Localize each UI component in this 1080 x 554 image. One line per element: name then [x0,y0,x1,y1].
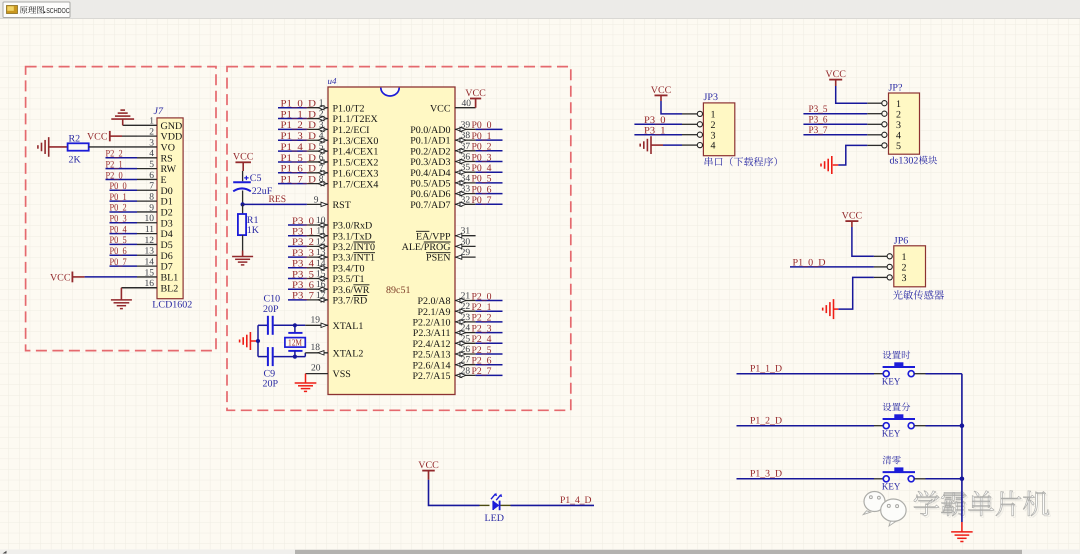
U4 pin 18 stub with arrow [305,351,328,355]
svg-text:J7: J7 [154,106,164,117]
wire and net label P0_6 (right) [472,184,503,195]
power port VCC (JP6) [842,210,863,227]
svg-text:P1_3_D: P1_3_D [750,469,782,480]
U4 pin 15 stub with arrow [307,276,328,280]
U4 pin 29 stub with arrow [455,255,476,259]
U4 pin 40 stub [455,107,476,109]
svg-text:P1_4_D: P1_4_D [560,495,592,506]
wire crystal left rail [257,325,259,356]
LED D1 [480,493,511,510]
svg-text:P0.4/AD4: P0.4/AD4 [410,168,450,179]
wire RES node to R1 [242,204,244,214]
svg-text:P1_0_D: P1_0_D [793,258,826,269]
svg-text:P2.7/A15: P2.7/A15 [412,371,450,382]
svg-text:VCC: VCC [651,85,672,96]
svg-text:D7: D7 [161,262,173,273]
svg-text:16: 16 [316,280,326,290]
svg-text:P2.4/A12: P2.4/A12 [412,339,450,350]
svg-text:5: 5 [896,141,901,152]
U4 pin 2 stub with arrow [307,116,328,120]
svg-text:P0_7: P0_7 [472,195,492,206]
svg-text:P0_3: P0_3 [110,214,127,225]
node crystal-ground junction [256,339,260,343]
wire VCC to C5 [242,162,245,181]
svg-text:3: 3 [902,273,907,284]
svg-text:13: 13 [316,248,326,258]
ground (J7 pin 1) [111,110,134,125]
power port VCC (J7 BL1) [50,272,85,284]
svg-text:P2.0/A8: P2.0/A8 [417,296,450,307]
U4 pin 19 stub with arrow [305,323,328,327]
svg-text:P0_0: P0_0 [110,181,127,192]
svg-text:29: 29 [461,248,471,258]
wire and net label P2_2 (J7 pin 4) [106,149,138,160]
svg-text:P0.6/AD6: P0.6/AD6 [410,189,450,200]
U4 pin 23 stub with arrow [455,320,476,324]
svg-text:1: 1 [319,99,324,109]
wire and net label P0_1 (right) [472,131,503,142]
ground (JP6 pin 3) [823,299,839,319]
U4 pin 8 stub with arrow [307,181,328,185]
svg-text:P3.5/T1: P3.5/T1 [333,274,365,285]
wire and net label P2_0 (right) [472,291,503,302]
power port VCC (U4 pin 40) [465,88,486,108]
U4 pin 7 stub with arrow [307,171,328,175]
wire and net label P3_1 [288,227,314,238]
svg-text:VCC: VCC [418,460,439,471]
svg-text:JP?: JP? [889,83,903,94]
U4 pin 11 stub with arrow [307,234,328,238]
svg-text:VO: VO [161,143,175,154]
svg-text:P0.3/AD3: P0.3/AD3 [410,157,450,168]
wire and net label P3_7 (JP? pin 4) [803,125,867,136]
svg-text:P2_7: P2_7 [472,366,492,377]
wire and net label P1_1_D [737,363,875,374]
U4 pin 24 stub with arrow [455,330,476,334]
svg-text:9: 9 [314,195,319,205]
svg-text:2: 2 [319,110,324,120]
JP6 pin stubs and circles [874,254,892,280]
J7 pin names [161,121,183,294]
svg-text:P0.7/AD7: P0.7/AD7 [410,200,450,211]
svg-text:VSS: VSS [333,369,351,380]
U4 pin 20 stub [306,373,329,375]
svg-text:25: 25 [461,334,471,344]
svg-text:30: 30 [461,237,471,247]
svg-text:P2_6: P2_6 [472,356,492,367]
U4 pin 25 stub with arrow [455,341,476,345]
svg-text:P3_6: P3_6 [809,115,828,126]
wire and net label P0_4 (right) [472,163,503,174]
svg-text:P1.3/CEX0: P1.3/CEX0 [333,136,379,147]
connector JP6 body [894,246,926,287]
wire and net label RES to U4 RST [243,194,307,205]
svg-text:P2.6/A14: P2.6/A14 [412,360,450,371]
wire R1 to ground [242,235,244,256]
svg-text:P3.1/TxD: P3.1/TxD [333,231,372,242]
svg-text:89c51: 89c51 [386,285,410,296]
svg-text:LED: LED [485,513,504,524]
wire and net label P2_5 (right) [472,345,503,356]
svg-text:P1_5_D: P1_5_D [281,153,317,164]
svg-text:JP3: JP3 [704,92,718,103]
wire VCC to J7 pin 2 [122,135,137,137]
svg-text:P0.0/AD0: P0.0/AD0 [410,125,450,136]
JP? pin numbers [896,99,901,152]
svg-text:1K: 1K [247,225,260,236]
svg-text:4: 4 [319,131,324,141]
U4 pin 14 stub with arrow [307,266,328,270]
node XTAL1 junction [293,323,297,327]
svg-text:VDD: VDD [161,132,183,143]
svg-text:2: 2 [902,263,907,274]
U4 pin 4 stub with arrow [307,138,328,142]
U4 pin 30 stub with arrow [455,244,476,248]
U4 pin 31 stub with arrow [455,234,476,238]
wire C9 to XTAL2 [274,353,306,357]
U4 right pin names [402,103,451,382]
wire and net label P1_0_D (JP6 pin 2) [790,258,874,269]
U4 pin 22 stub with arrow [455,309,476,313]
push button KEY (设置分) [874,414,926,428]
svg-text:ALE/PROG: ALE/PROG [402,242,451,253]
wire and net label P3_3 [288,248,314,259]
svg-text:P1_3_D: P1_3_D [281,131,317,142]
wire and net label P0_5 (right) [472,174,503,185]
svg-text:26: 26 [461,345,471,355]
U4 pin 27 stub with arrow [455,363,476,367]
JP3 pin numbers [711,110,716,152]
wire and net label P1_6_D [278,164,316,175]
wire VCC to J7 pin 15 [85,276,137,278]
svg-text:KEY: KEY [882,377,901,388]
svg-text:LCD1602: LCD1602 [152,300,192,311]
svg-text:12: 12 [316,237,326,247]
wire JP6 pin 3 to ground [838,277,874,309]
svg-text:36: 36 [461,153,471,163]
svg-text:P0.2/AD2: P0.2/AD2 [410,146,450,157]
connector JP3 body [703,103,734,156]
svg-text:P3_5: P3_5 [809,104,828,115]
U4 pin 26 stub with arrow [455,352,476,356]
wire C5 to node RES [242,191,244,205]
U4 pin 3 stub with arrow [307,127,328,131]
editor tab bar [0,0,1080,18]
connector JP? body [889,93,920,154]
svg-text:P2_0: P2_0 [472,291,492,302]
svg-text:EA/VPP: EA/VPP [416,231,451,242]
U4 left pin names [333,103,379,380]
wire and net label P1_1_D [278,109,316,120]
svg-text:D3: D3 [161,218,173,229]
wire KEY (清零) to bus [926,478,962,480]
resistor R1 [238,214,246,235]
JP? pin stubs and circles [867,101,887,148]
svg-text:28: 28 [461,366,471,376]
svg-text:RES: RES [269,194,287,205]
svg-text:C10: C10 [264,293,281,304]
svg-text:D4: D4 [161,229,173,240]
watermark WeChat logo bubble 1 [863,492,885,515]
wire and net label P2_1 (right) [472,302,503,313]
U4 pin 36 stub with arrow [455,159,476,163]
wire and net label P0_3 (right) [472,152,503,163]
svg-text:P3_0: P3_0 [644,115,666,126]
svg-text:VCC: VCC [430,103,451,114]
capacitor C5 (electrolytic) [233,176,251,192]
svg-text:P1_7_D: P1_7_D [281,174,317,185]
svg-text:P2_1: P2_1 [106,159,123,170]
wire and net label P2_4 (right) [472,334,503,345]
svg-text:P2_4: P2_4 [472,334,492,345]
svg-text:P2.2/A10: P2.2/A10 [412,318,450,329]
wire and net label P1_4_D [511,495,595,506]
svg-text:2: 2 [896,109,901,120]
watermark WeChat logo bubble 2 [881,499,906,526]
svg-text:P3_4: P3_4 [292,259,314,270]
svg-text:P3_7: P3_7 [809,125,828,136]
U4 pin 6 stub with arrow [307,160,328,164]
wire and net label P3_5 [288,269,314,280]
svg-text:P0_2: P0_2 [110,203,127,214]
svg-text:17: 17 [316,291,326,301]
node XTAL2 junction [293,355,297,359]
comment ds1302模块 [890,156,938,167]
wire and net label P0_6 (J7 pin 13) [110,246,138,257]
svg-text:22: 22 [461,302,471,312]
wire J7 pin 16 to ground [121,287,157,289]
svg-text:P0_5: P0_5 [110,235,127,246]
svg-text:P0_7: P0_7 [110,257,127,268]
svg-text:RW: RW [161,164,177,175]
svg-text:P3.2/INT0: P3.2/INT0 [333,242,376,253]
wire and net label P0_0 (J7 pin 7) [110,181,138,192]
svg-text:P2.5/A13: P2.5/A13 [412,350,450,361]
svg-text:P1.1/T2EX: P1.1/T2EX [333,114,379,125]
svg-text:VCC: VCC [842,210,863,221]
svg-text:P3.4/T0: P3.4/T0 [333,263,365,274]
svg-text:P0_3: P0_3 [472,152,492,163]
ground (J7 pin 16) [111,288,132,309]
U4 pin 39 stub with arrow [455,127,476,131]
svg-text:P3.7/RD: P3.7/RD [333,296,368,307]
svg-text:34: 34 [461,174,471,184]
svg-text:P1.2/ECI: P1.2/ECI [333,125,370,136]
svg-text:P3_1: P3_1 [292,227,314,238]
label 设置分 [883,402,911,411]
U4 pin 9 (RST) stub with arrow [307,202,328,206]
wire and net label P1_2_D [737,415,875,426]
wire VCC to JP? pin 1 [836,86,868,103]
svg-text:P1_1_D: P1_1_D [750,363,782,374]
svg-text:31: 31 [461,227,471,237]
junction key bus / KEY3 [960,477,965,482]
svg-text:P1.7/CEX4: P1.7/CEX4 [333,179,379,190]
svg-text:GND: GND [161,121,183,132]
svg-text:SCHDOC: SCHDOC [46,6,69,15]
dashed boundary box (MCU section) [227,67,571,411]
wire and net label P1_7_D [278,174,316,185]
wire and net label P0_3 (J7 pin 10) [110,214,138,225]
svg-text:P1.4/CEX1: P1.4/CEX1 [333,147,379,158]
U4 pin 16 stub with arrow [307,287,328,291]
ground (R1) [232,257,253,265]
wire VCC to LED [429,480,480,506]
svg-text:1: 1 [896,99,901,110]
label 清零 [883,456,901,465]
U4 pin 12 stub with arrow [307,244,328,248]
wire and net label P0_1 (J7 pin 8) [110,192,138,203]
J7 pin numbers [145,117,155,289]
svg-text:D5: D5 [161,240,173,251]
U4 pin 13 stub with arrow [307,255,328,259]
svg-text:P1_2_D: P1_2_D [281,120,317,131]
svg-text:P0.1/AD1: P0.1/AD1 [410,136,450,147]
wire key bus vertical [961,374,963,522]
U4 pin 10 stub with arrow [307,223,328,227]
svg-text:21: 21 [461,292,471,302]
svg-text:P3_6: P3_6 [292,280,314,291]
wire and net label P3_2 [288,237,314,248]
U4 pin 5 stub with arrow [307,149,328,153]
U4 pin 21 stub with arrow [455,298,476,302]
JP6 pin numbers [902,252,907,284]
svg-text:11: 11 [316,227,325,237]
wire and net label P3_0 [288,216,314,227]
wire R2 to J7 pin 3 (VO) [89,146,137,148]
wire and net label P3_5 (JP? pin 2) [803,104,867,115]
wire and net label P1_2_D [278,120,316,131]
svg-text:12M: 12M [288,339,302,349]
label 设置时 [883,351,911,360]
svg-text:VCC: VCC [233,152,254,163]
ground (JP? pin 5) [821,156,838,174]
svg-text:D2: D2 [161,208,173,219]
comment 串口（下载程序） [705,157,777,166]
wire VCC to JP6 pin 1 [852,227,874,256]
svg-text:P3_5: P3_5 [292,269,314,280]
svg-text:10: 10 [316,216,326,226]
wire and net label P2_7 (right) [472,366,503,377]
svg-text:40: 40 [462,99,472,109]
U4 pin 34 stub with arrow [455,181,476,185]
svg-text:6: 6 [319,153,324,163]
svg-text:P1_2_D: P1_2_D [750,415,782,426]
push button KEY (设置时) [874,362,926,376]
svg-text:32: 32 [461,195,471,205]
svg-text:XTAL2: XTAL2 [333,348,364,359]
power port VCC (J7 VDD) [87,131,122,143]
svg-text:37: 37 [461,142,471,152]
wire and net label P2_1 (J7 pin 5) [106,159,138,170]
svg-text:P0_1: P0_1 [110,192,127,203]
svg-text:27: 27 [461,356,471,366]
svg-text:XTAL1: XTAL1 [333,321,364,332]
svg-text:20: 20 [311,364,321,374]
svg-text:JP6: JP6 [894,236,908,247]
svg-text:4: 4 [711,141,716,152]
svg-text:R2: R2 [69,133,81,144]
svg-text:P3_3: P3_3 [292,248,314,259]
connector J7 (LCD1602 header) body [157,118,183,299]
ground (key bus) [951,522,973,542]
wire and net label P1_3_D [737,469,875,480]
svg-text:E: E [161,175,167,186]
svg-text:RS: RS [161,153,173,164]
svg-text:VCC: VCC [87,132,108,143]
power port VCC (reset) [233,152,254,163]
wire and net label P0_4 (J7 pin 11) [110,224,138,235]
watermark text 学霸单片机 [914,491,1051,518]
J7 pin stubs [137,136,157,277]
svg-text:P0_4: P0_4 [472,163,492,174]
U4 pin 38 stub with arrow [455,138,476,142]
svg-text:C5: C5 [250,173,262,184]
wire ground to JP3 pin 4 [663,144,682,146]
ground (JP3 pin 4) [640,136,663,154]
svg-text:20P: 20P [263,379,279,390]
wire and net label P1_3_D [278,131,316,142]
ground (crystal) [240,332,258,350]
wire and net label P2_2 (right) [472,313,503,324]
svg-text:2K: 2K [69,155,82,166]
svg-text:BL2: BL2 [161,283,179,294]
svg-text:P2_3: P2_3 [472,323,492,334]
capacitor C10 [258,316,273,335]
push button KEY (清零) [874,467,926,481]
U4 pin 17 stub with arrow [307,298,328,302]
svg-text:P0_6: P0_6 [472,184,492,195]
svg-text:P2_5: P2_5 [472,345,492,356]
svg-text:D0: D0 [161,186,173,197]
svg-text:P3.0/RxD: P3.0/RxD [333,221,373,232]
svg-text:P1_1_D: P1_1_D [281,109,317,120]
horizontal scrollbar [0,550,1080,554]
svg-text:5: 5 [319,142,324,152]
wire and net label P0_2 (right) [472,142,503,153]
wire and net label P0_7 (right) [472,195,503,206]
svg-text:P0_0: P0_0 [472,120,492,131]
wire J7 pin 1 to ground [123,124,157,126]
wire and net label P0_7 (J7 pin 14) [110,257,138,268]
IC U4 89c51 body [328,87,455,395]
comment 光敏传感器 [893,290,944,300]
svg-text:P3_2: P3_2 [292,237,314,248]
wire C10 to XTAL1 [274,324,306,326]
svg-text:P2_1: P2_1 [472,302,492,313]
svg-text:VCC: VCC [825,69,846,80]
U4 active-low overlines (left) [353,242,375,296]
svg-text:P3.3/INT1: P3.3/INT1 [333,253,376,264]
svg-text:P1_4_D: P1_4_D [281,142,317,153]
wire KEY (设置分) to bus [926,425,962,427]
U4 pin 35 stub with arrow [455,170,476,174]
svg-text:P2_0: P2_0 [106,170,123,181]
power port VCC (LED) [418,460,439,480]
svg-text:KEY: KEY [882,429,901,440]
svg-text:D1: D1 [161,197,173,208]
svg-text:38: 38 [461,131,471,141]
svg-text:4: 4 [896,130,901,141]
wire and net label P1_5_D [278,153,316,164]
svg-text:3: 3 [896,120,901,131]
wire and net label P1_4_D [278,142,316,153]
wire VCC to JP3 pin 1 [661,101,682,114]
power port VCC (JP3) [651,85,672,101]
wire and net label P3_1 (JP3 pin 3) [634,125,682,136]
U4 active-low overlines (right) [416,231,450,252]
svg-text:P0_5: P0_5 [472,174,492,185]
